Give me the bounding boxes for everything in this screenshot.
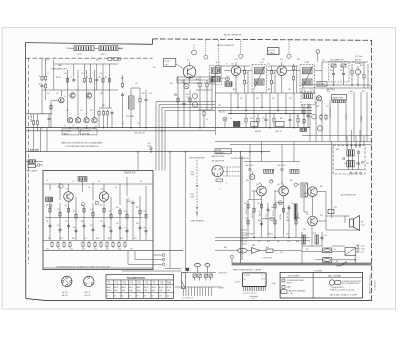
svg-text:C56 25μ: C56 25μ (241, 244, 247, 246)
svg-text:10k: 10k (257, 203, 260, 205)
svg-text:4.7k 10μ: 4.7k 10μ (241, 232, 247, 234)
wire from border to coils (70, 47, 74, 49)
trimmer capacitor (59, 184, 63, 188)
legend square AM (282, 285, 285, 288)
svg-text:C5: C5 (70, 77, 72, 79)
svg-text:220k: 220k (66, 48, 70, 50)
resistor R27 (273, 117, 275, 124)
tuner internal wires (43, 177, 153, 241)
svg-text:C22: C22 (70, 249, 73, 251)
small transistor Q1 (67, 118, 72, 123)
svg-text:AU TEMPS: AU TEMPS (288, 274, 300, 277)
power resistor (dark bar) (294, 204, 297, 219)
svg-text:R58: R58 (316, 106, 319, 108)
svg-text:ABC SIGNAL: ABC SIGNAL (328, 275, 342, 278)
capacitor C40 (249, 167, 252, 172)
circled node 4 (270, 217, 273, 220)
svg-text:R65 560: R65 560 (273, 210, 275, 216)
svg-text:6k8: 6k8 (100, 93, 103, 95)
rail y128 dots (253, 127, 255, 129)
svg-text:7.10: 7.10 (361, 224, 365, 226)
inner dashed line below top border (26, 57, 153, 59)
resistor R30 (363, 73, 365, 80)
junction dots on rail y151.7 (137, 151, 139, 153)
capacitor C16 (150, 146, 153, 151)
svg-text:C55: C55 (286, 234, 289, 236)
resistor Rosc1 (177, 97, 179, 104)
svg-text:1k: 1k (279, 203, 281, 205)
DIN pins (214, 168, 221, 175)
svg-text:AMPLI BF: AMPLI BF (333, 97, 344, 100)
svg-text:R69 1k: R69 1k (298, 213, 300, 218)
capacitor Cosc1 (183, 101, 186, 106)
svg-text:T&9: T&9 (167, 282, 172, 284)
svg-text:6V: 6V (152, 295, 154, 297)
svg-text:6μF: 6μF (148, 145, 151, 147)
resistor R3 (44, 83, 46, 90)
pot circle on rail (317, 126, 322, 131)
secondary rail y130.8 (26, 130, 215, 132)
svg-text:R72: R72 (356, 163, 359, 165)
AM IF transformer box (dashed) (301, 92, 315, 105)
rails right y85/y88 (300, 84, 372, 86)
svg-text:T2: T2 (72, 126, 74, 128)
transistor Tr2 (277, 66, 287, 76)
svg-text:NOTIZIE: NOTIZIE (315, 271, 323, 273)
label box DET AM (317, 82, 327, 87)
IC module box (242, 273, 266, 287)
svg-text:T1: T1 (64, 126, 66, 128)
svg-text:R 2741: R 2741 (244, 275, 250, 277)
wires antenna to tuner (35, 161, 43, 163)
resistor R35 (283, 207, 285, 214)
transistor T7 (279, 186, 289, 196)
svg-text:1n: 1n (124, 227, 126, 229)
svg-text:R74: R74 (320, 186, 323, 188)
svg-text:S 7.112.30 B: S 7.112.30 B (374, 279, 376, 290)
svg-text:VERS PRISE HP: VERS PRISE HP (191, 221, 206, 223)
antenna terminal circle (37, 164, 40, 167)
column labels (108, 282, 172, 284)
main schematic border: bottom (26, 299, 372, 301)
output wires (304, 192, 360, 230)
svg-text:C28: C28 (280, 59, 283, 61)
ratio detector dashed box (329, 62, 349, 83)
svg-text:C12: C12 (73, 211, 76, 213)
capacitor C2 (48, 116, 51, 121)
svg-text:TOUCHES MB et ANT EN SERVICE: TOUCHES MB et ANT EN SERVICE (65, 145, 99, 148)
svg-text:VERS HP: VERS HP (346, 113, 348, 120)
transistor RF2 (70, 93, 75, 98)
svg-text:R67 1.2k: R67 1.2k (241, 241, 247, 243)
electrolytic C10 (223, 117, 227, 121)
IF transformer box 2 (dashed) (300, 65, 314, 93)
svg-text:TI 25 BF A 7887Ω: TI 25 BF A 7887Ω (330, 286, 344, 289)
tone resistor block R71 (hatched) (347, 150, 350, 156)
svg-text:C26: C26 (222, 78, 225, 80)
svg-text:C60: C60 (366, 163, 369, 165)
svg-text:R38: R38 (305, 108, 308, 110)
svg-text:220: 220 (240, 98, 243, 100)
audio rotated labels (246, 208, 300, 220)
transistor T osc (183, 66, 195, 78)
resistor R8 (89, 77, 91, 84)
transistor Tr1 (231, 66, 241, 76)
svg-text:R44 100: R44 100 (219, 112, 225, 114)
svg-text:R20: R20 (120, 238, 123, 240)
svg-text:12k: 12k (116, 223, 119, 225)
label box COLPITTS OSC FM (163, 58, 175, 66)
label box AMPLI BF (332, 95, 347, 100)
transistor T1 (64, 192, 74, 202)
svg-text:6V: 6V (122, 295, 124, 297)
svg-text:C22: C22 (137, 123, 140, 125)
dark hatch block on rail left (300, 128, 307, 132)
resistor R16 (199, 82, 201, 89)
resistor R10 (108, 77, 110, 84)
svg-text:C52 10μF: C52 10μF (246, 234, 253, 236)
resistor R12 (102, 110, 104, 117)
transistor T5 (316, 96, 321, 101)
volume pot circle P (250, 175, 255, 180)
audio wires (244, 162, 300, 238)
svg-text:1k5: 1k5 (273, 83, 276, 85)
svg-text:R67 220: R67 220 (287, 212, 289, 218)
terminal circle 2 (162, 258, 165, 261)
svg-text:C45 10μ: C45 10μ (252, 212, 254, 218)
shield marker circle (192, 50, 197, 55)
tuner box double bottom (43, 267, 153, 269)
svg-text:+4(2): +4(2) (271, 283, 275, 285)
vertical wires into lower right (310, 92, 367, 142)
legend divider (312, 272, 314, 298)
shield circle small (204, 55, 208, 59)
svg-text:C4: C4 (88, 187, 90, 189)
leader line from label to transistor (176, 64, 184, 69)
small node circle (49, 204, 52, 207)
svg-text:C27: C27 (130, 249, 133, 251)
svg-text:6V: 6V (114, 295, 116, 297)
resistor R23 (292, 65, 294, 72)
svg-text:EN AVANT: EN AVANT (63, 130, 71, 133)
svg-text:C50: C50 (350, 91, 353, 93)
svg-text:TUNER FM: TUNER FM (124, 172, 136, 174)
svg-text:− 12V: − 12V (360, 249, 366, 251)
vertical string x51 (50, 100, 52, 128)
antenna coil (hatched) (46, 197, 53, 202)
right columns (322, 62, 368, 88)
small node circle (343, 157, 345, 159)
svg-text:COMMUT: COMMUT (361, 115, 363, 122)
svg-text:ABC MEG: ABC MEG (327, 88, 336, 91)
svg-text:C38: C38 (262, 118, 265, 120)
svg-text:C21: C21 (231, 63, 234, 65)
resistor R41 (hatched block) (315, 235, 319, 244)
small transistor Q2 (75, 118, 80, 123)
hatched bar (volume law) (332, 100, 345, 103)
svg-text:FM FB: FM FB (287, 283, 293, 285)
svg-text:12 TR: 12 TR (235, 281, 241, 283)
svg-text:C48: C48 (318, 83, 321, 85)
inner dashed line left (28, 58, 30, 264)
svg-text:10k: 10k (64, 73, 67, 75)
svg-text:R42: R42 (280, 118, 283, 120)
capacitor C6 (121, 92, 124, 97)
svg-text:C54 R66: C54 R66 (241, 235, 247, 237)
resistor R2 (44, 75, 46, 82)
svg-text:R14: R14 (48, 238, 51, 240)
horizontal wire y90 (42, 89, 118, 91)
svg-text:R32: R32 (268, 89, 271, 91)
tuner mid horizontal wire (45, 217, 143, 219)
resistor R36 (295, 219, 297, 226)
resistor R1 (41, 75, 43, 82)
diode D1 (331, 64, 336, 67)
svg-text:C13: C13 (90, 209, 93, 211)
transistor T8 (308, 187, 318, 197)
resistor R19 (243, 69, 245, 76)
legend header underline (280, 277, 362, 279)
transistor RF3 (86, 93, 91, 98)
svg-text:C11: C11 (66, 110, 69, 112)
svg-text:R75: R75 (320, 215, 323, 217)
svg-text:C18: C18 (149, 93, 152, 95)
svg-text:L2: L2 (72, 181, 74, 183)
svg-text:R12: R12 (88, 93, 91, 95)
svg-text:C49 50μ: C49 50μ (280, 214, 282, 220)
svg-text:R18: R18 (96, 238, 99, 240)
main schematic border: right dashed (371, 40, 373, 300)
svg-text:C71 100p: C71 100p (355, 56, 362, 58)
svg-text:330: 330 (136, 223, 139, 225)
resistor R24 (292, 75, 294, 82)
transistor lead down (189, 78, 191, 84)
svg-text:C25: C25 (106, 249, 109, 251)
svg-text:12V: 12V (167, 295, 170, 297)
svg-text:R16: R16 (72, 238, 75, 240)
tone capacitor C61 (357, 150, 360, 155)
tuner box outline (43, 171, 153, 270)
resistor R13 (106, 110, 108, 117)
svg-text:LED 7.10: LED 7.10 (275, 131, 282, 133)
capacitor C8 (211, 78, 214, 83)
junction dots on bus (189, 76, 191, 78)
small rect component (266, 249, 273, 252)
svg-text:22k: 22k (196, 83, 199, 85)
wire row mid (26, 113, 52, 115)
resistor R9 (102, 77, 104, 84)
svg-text:471Ω: 471Ω (78, 54, 83, 56)
power wires (302, 226, 357, 263)
svg-text:ALTE FREQU HP: ALTE FREQU HP (341, 193, 357, 196)
main schematic border: top-right dashed segment (153, 39, 372, 40)
capacitor C41 (281, 167, 284, 172)
svg-text:C20: C20 (181, 81, 184, 83)
svg-text:C48 C49 270: C48 C49 270 (134, 132, 145, 134)
diode D2 (341, 64, 346, 67)
tuner resistors row 1 (49, 207, 51, 214)
oval component CAL (238, 248, 248, 253)
svg-text:C46: C46 (297, 184, 300, 186)
svg-text:AC 128: AC 128 (85, 294, 91, 297)
svg-text:220p: 220p (174, 94, 178, 96)
svg-text:471Ω: 471Ω (101, 54, 106, 56)
svg-text:R15: R15 (60, 238, 63, 240)
dashed drop to input IF (218, 40, 220, 65)
svg-text:12k: 12k (246, 73, 249, 75)
tone resistor block R72 (hatched) (351, 150, 354, 156)
svg-text:R53: R53 (360, 65, 363, 67)
svg-text:R12: R12 (136, 207, 139, 209)
svg-text:R78: R78 (313, 233, 316, 235)
IC pins (244, 287, 265, 292)
svg-text:C35: C35 (289, 98, 292, 100)
svg-text:R57: R57 (362, 91, 365, 93)
bias resistor block (328, 209, 334, 213)
circled node 3 (294, 183, 297, 186)
wires on line y250.5 (215, 249, 302, 251)
column dividers (114, 280, 167, 299)
svg-text:47μF: 47μF (191, 197, 195, 199)
resistor R40 (hatched block) (302, 235, 306, 244)
node circle on rail (231, 255, 234, 258)
svg-text:R7: R7 (86, 77, 88, 79)
svg-text:R22: R22 (142, 93, 145, 95)
svg-text:6V: 6V (144, 295, 146, 297)
svg-text:220: 220 (98, 77, 101, 79)
svg-text:4k7: 4k7 (39, 84, 42, 86)
rail y113.5 (dark) (228, 113, 312, 115)
svg-text:R55: R55 (327, 91, 330, 93)
wires left cluster (122, 98, 124, 128)
shield circle 1 + dashed drop (239, 54, 243, 58)
driver transformer (hatched) (301, 183, 307, 197)
svg-text:DAL 52 DALL TQ78A con TI al: DAL 52 DALL TQ78A con TI al 3FM (330, 294, 357, 297)
capacitor C43 (288, 205, 291, 210)
svg-text:C24: C24 (235, 59, 238, 61)
svg-text:R65 C53: R65 C53 (241, 230, 247, 232)
osc right components (196, 76, 212, 128)
main schematic border: left side (25, 42, 27, 298)
tuner caps row 2 (49, 223, 52, 228)
svg-text:C24: C24 (94, 249, 97, 251)
svg-text:R8: R8 (100, 205, 102, 207)
svg-text:C20: C20 (46, 249, 49, 251)
svg-text:R40: R40 (250, 118, 253, 120)
bottom terminal circles (350, 172, 352, 174)
svg-text:22μF 560: 22μF 560 (241, 238, 248, 240)
svg-text:C47 25μ: C47 25μ (266, 214, 268, 220)
tone resistor block R74 (hatched, lower) (351, 161, 354, 167)
svg-text:47μF: 47μF (191, 174, 195, 176)
svg-text:4n7: 4n7 (47, 93, 50, 95)
svg-text:C8: C8 (72, 93, 74, 95)
svg-text:R3 220: R3 220 (56, 77, 61, 79)
svg-text:R15: R15 (90, 110, 93, 112)
transistor T9 (308, 216, 318, 226)
svg-text:100: 100 (291, 203, 294, 205)
socket circle 2 (3 pins) (84, 276, 94, 286)
contact pair A (193, 274, 196, 277)
svg-text:R27: R27 (186, 94, 189, 96)
tone resistor block R73 (hatched, lower) (347, 161, 350, 167)
resistor R28 (297, 117, 299, 124)
capacitor C1 (41, 83, 44, 88)
trimmer capacitor (95, 201, 99, 205)
svg-text:+ ANT. EXT: + ANT. EXT (218, 271, 227, 274)
svg-text:330: 330 (277, 241, 280, 243)
svg-text:C2 10n: C2 10n (44, 60, 49, 62)
resistor R6 (66, 77, 68, 84)
IF wires horizontal (215, 66, 322, 93)
label box PRISE MAGNETO (215, 149, 231, 154)
dashed links from socket (223, 167, 240, 176)
small node circle (361, 161, 363, 163)
svg-text:(TTA) TI 25 L2277F) incroci 27: (TTA) TI 25 L2277F) incroci 27A (330, 288, 355, 291)
svg-text:C57: C57 (258, 241, 261, 243)
svg-text:R76: R76 (334, 207, 337, 209)
small marks on rail (31, 149, 34, 151)
resistor R29 (351, 69, 353, 76)
rail y141.5 (215, 141, 372, 143)
svg-text:C66: C66 (280, 252, 283, 254)
svg-text:R19: R19 (108, 238, 111, 240)
svg-text:1k8: 1k8 (170, 83, 173, 85)
svg-text:C51: C51 (326, 106, 329, 108)
svg-text:C64: C64 (324, 235, 327, 237)
svg-text:1k: 1k (39, 76, 41, 78)
link wires from tuner terminals (165, 267, 182, 269)
svg-text:6V: 6V (137, 295, 139, 297)
svg-text:4.7Ω STYLE: 4.7Ω STYLE (263, 258, 273, 260)
trap label box 2 (275, 121, 284, 126)
svg-text:2n2: 2n2 (90, 225, 93, 227)
svg-text:6V: 6V (129, 295, 131, 297)
svg-text:220: 220 (65, 221, 68, 223)
mixer grid wires vertical (54, 60, 110, 118)
oscillator coil (hatched) (78, 177, 87, 182)
svg-text:C30: C30 (288, 89, 291, 91)
junction dots rails mid (130, 127, 132, 129)
svg-text:L9: L9 (303, 90, 305, 92)
svg-text:TIMING: TIMING (268, 53, 275, 55)
svg-text:R66: R66 (258, 220, 261, 222)
capacitor C42 (267, 207, 270, 212)
svg-text:R17: R17 (84, 238, 87, 240)
resistor R38 (274, 219, 276, 226)
resistor R31 (247, 203, 249, 210)
svg-text:R60: R60 (246, 180, 249, 182)
svg-text:R31: R31 (262, 59, 265, 61)
tone inner wires (335, 155, 364, 170)
rail y144.5 (230, 144, 372, 146)
transistor TR (RF amp) (59, 98, 64, 103)
svg-text:R25: R25 (196, 79, 199, 81)
capacitor C57 (321, 235, 324, 240)
DIN socket circle (212, 165, 223, 176)
svg-text:C33: C33 (256, 98, 259, 100)
battery switch box (345, 248, 356, 256)
coil L2 (hatched block) (99, 46, 118, 51)
capacitor C7 (145, 97, 148, 102)
small transistor Q4 (92, 118, 97, 123)
row dividers (106, 283, 174, 285)
resistor R18 (203, 110, 205, 117)
svg-text:RADIO A TOUCHES AU DETC ELABOR: RADIO A TOUCHES AU DETC ELABORATE (61, 142, 103, 145)
svg-text:L3: L3 (98, 181, 100, 183)
svg-text:C23: C23 (186, 97, 189, 99)
audio feed verticals (250, 142, 294, 162)
